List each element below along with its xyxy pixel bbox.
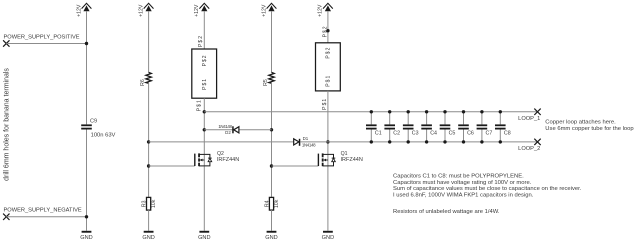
svg-text:IRFZ44N: IRFZ44N (341, 157, 363, 163)
capacitor C9 (81, 124, 92, 129)
transistor Q1 (272, 165, 319, 167)
svg-text:R4: R4 (264, 200, 270, 207)
inductor L2 (winding box) (316, 43, 341, 91)
svg-text:P$1: P$1 (196, 99, 202, 111)
junction rail3 / D2 cathode (203, 128, 206, 131)
junction C7 bottom (480, 140, 483, 143)
junction rail3 / tank top row (203, 110, 206, 113)
svg-text:+12V: +12V (318, 4, 324, 17)
wire rail5 +12V to inductor L2 (327, 11, 329, 43)
capacitor C2 (384, 112, 395, 142)
svg-text:+12V: +12V (138, 4, 144, 17)
wire rail3 +12V to inductor L1 (203, 11, 205, 49)
supply +12V symbol (rail 2) (144, 3, 154, 11)
svg-text:100n 63V: 100n 63V (91, 132, 116, 138)
svg-text:Capacitors C1 to C8: must be P: Capacitors C1 to C8: must be POLYPROPYLE… (393, 174, 524, 180)
junction C4 top (425, 110, 428, 113)
wire gate row Q2 / D1 anode (tank bottom left) (149, 141, 294, 143)
junction C6 bottom (462, 140, 465, 143)
wire tank top row (Q2 drain to LOOP_1) (204, 111, 537, 113)
diode D2 (232, 126, 239, 133)
svg-text:R3: R3 (141, 200, 147, 207)
svg-text:R6: R6 (140, 79, 146, 86)
capacitor C7 (477, 112, 488, 142)
junction rail2 / Q2 gate lead (147, 164, 150, 167)
resistor R6 (146, 72, 151, 83)
svg-text:C6: C6 (467, 131, 474, 137)
wire C9 down to GND (86, 130, 88, 231)
junction C8 bottom (499, 140, 502, 143)
junction C2 bottom (388, 140, 391, 143)
wire L2 to Q1 drain and GND (327, 91, 329, 231)
svg-text:P$2: P$2 (326, 47, 332, 59)
supply +12V symbol (rail 3) (199, 3, 209, 11)
svg-text:P$1: P$1 (322, 98, 328, 110)
svg-text:I used 6.8nF, 1000V WIMA FKP1: I used 6.8nF, 1000V WIMA FKP1 capacitors… (393, 193, 534, 199)
svg-text:IRFZ44N: IRFZ44N (217, 157, 239, 163)
junction C3 bottom (407, 140, 410, 143)
svg-text:Q2: Q2 (217, 151, 224, 157)
ground symbol rail2 (144, 231, 154, 233)
junction rail1 / positive input (85, 42, 88, 45)
svg-text:GND: GND (265, 235, 277, 241)
junction rail5 / tank bottom row (326, 140, 329, 143)
svg-text:+12V: +12V (76, 4, 82, 17)
wire rail1 +12V down to C9 (86, 11, 88, 124)
junction C1 top (370, 110, 373, 113)
pin LOOP_1 connection X (534, 109, 540, 115)
junction C3 top (407, 110, 410, 113)
junction rail2 / tank bottom row (147, 140, 150, 143)
svg-text:Use 6mm copper tube for the lo: Use 6mm copper tube for the loop (545, 126, 633, 132)
svg-text:10k: 10k (274, 199, 280, 208)
svg-text:GND: GND (142, 235, 154, 241)
svg-text:P$2: P$2 (322, 25, 328, 37)
junction C1 bottom (370, 140, 373, 143)
junction C8 top (499, 110, 502, 113)
svg-text:C1: C1 (375, 131, 382, 137)
svg-text:P$2: P$2 (198, 35, 204, 47)
junction C4 bottom (425, 140, 428, 143)
junction C5 top (443, 110, 446, 113)
svg-text:GND: GND (80, 235, 92, 241)
svg-text:C9: C9 (90, 119, 97, 125)
ground symbol rail5 (323, 231, 333, 233)
svg-text:C3: C3 (412, 131, 419, 137)
junction C6 top (462, 110, 465, 113)
ground symbol rail3 (199, 231, 209, 233)
junction rail5 supply pin (326, 29, 329, 32)
wire L1 to Q2 drain and GND (203, 98, 205, 231)
junction C7 top (480, 110, 483, 113)
capacitor C6 (458, 112, 469, 142)
capacitor C3 (403, 112, 414, 142)
svg-text:P$2: P$2 (202, 54, 208, 66)
resistor R3 (147, 197, 151, 210)
svg-text:C2: C2 (393, 131, 400, 137)
pin POWER_SUPPLY_POSITIVE connection X (3, 40, 9, 46)
wire tank bottom row (D1 cathode to LOOP_2) (300, 141, 537, 143)
svg-text:Resistors of unlabeled wattage: Resistors of unlabeled wattage are 1/4W. (393, 209, 500, 215)
junction rail4 / Q1 gate lead (270, 164, 273, 167)
ground symbol rail4 (267, 231, 277, 233)
junction C2 top (388, 110, 391, 113)
svg-text:GND: GND (198, 235, 210, 241)
svg-text:1N4148: 1N4148 (302, 143, 316, 148)
transistor Q2 (149, 165, 195, 167)
diode D1 (294, 139, 301, 146)
svg-text:C5: C5 (449, 131, 456, 137)
svg-text:LOOP_1: LOOP_1 (518, 116, 540, 122)
resistor R4 (269, 197, 273, 210)
capacitor C1 (366, 112, 377, 142)
svg-text:Copper loop attaches here.: Copper loop attaches here. (545, 120, 616, 126)
pin POWER_SUPPLY_NEGATIVE connection X (3, 214, 9, 220)
svg-text:Capacitors must have voltage r: Capacitors must have voltage rating of 1… (393, 180, 532, 186)
svg-text:P$1: P$1 (202, 78, 208, 90)
wire rail4 +12V to R5 (271, 11, 273, 72)
svg-text:C4: C4 (430, 131, 437, 137)
wire D2 row (Q2 drain to Q1 gate) (204, 129, 232, 131)
junction rail1 / negative input (85, 215, 88, 218)
svg-text:GND: GND (322, 235, 334, 241)
svg-text:10k: 10k (151, 199, 157, 208)
svg-text:C7: C7 (486, 131, 493, 137)
inductor L1 (winding box) (192, 49, 217, 98)
svg-text:C8: C8 (504, 131, 511, 137)
svg-text:D2: D2 (225, 130, 231, 135)
wire R6 down to gate node (148, 83, 150, 197)
pin LOOP_2 connection X (534, 139, 540, 145)
supply +12V symbol (rail 4) (267, 3, 277, 11)
resistor R5 (269, 72, 274, 83)
svg-text:POWER_SUPPLY_NEGATIVE: POWER_SUPPLY_NEGATIVE (4, 207, 82, 213)
capacitor C5 (440, 112, 451, 142)
wire R5 down to gate node (271, 83, 273, 197)
svg-text:D1: D1 (303, 136, 309, 141)
wire R4 to ground (271, 210, 273, 231)
supply +12V symbol (rail 1) (82, 3, 92, 11)
ground symbol rail1 (82, 231, 92, 233)
wire rail2 +12V to R6 (148, 11, 150, 72)
capacitor C4 (421, 112, 432, 142)
svg-text:Q1: Q1 (341, 151, 348, 157)
junction rail4 / D2 anode (270, 128, 273, 131)
junction C5 bottom (443, 140, 446, 143)
svg-text:Sum of capacitance values must: Sum of capacitance values must be close … (393, 186, 582, 192)
svg-text:P$1: P$1 (326, 75, 332, 87)
svg-text:+12V: +12V (194, 4, 200, 17)
svg-text:drill 6mm holes for banana ter: drill 6mm holes for banana terminals (4, 68, 11, 181)
svg-text:R5: R5 (263, 79, 269, 86)
capacitor C8 (495, 112, 506, 142)
svg-text:POWER_SUPPLY_POSITIVE: POWER_SUPPLY_POSITIVE (4, 35, 80, 41)
wire POWER_SUPPLY_POSITIVE to +12V rail (6, 43, 86, 45)
wire POWER_SUPPLY_NEGATIVE to GND rail (6, 216, 86, 218)
svg-text:LOOP_2: LOOP_2 (518, 146, 540, 152)
svg-text:1N4148: 1N4148 (218, 124, 232, 129)
svg-text:+12V: +12V (261, 4, 267, 17)
wire R3 to ground (148, 210, 150, 231)
supply +12V symbol (rail 5) (323, 3, 333, 11)
